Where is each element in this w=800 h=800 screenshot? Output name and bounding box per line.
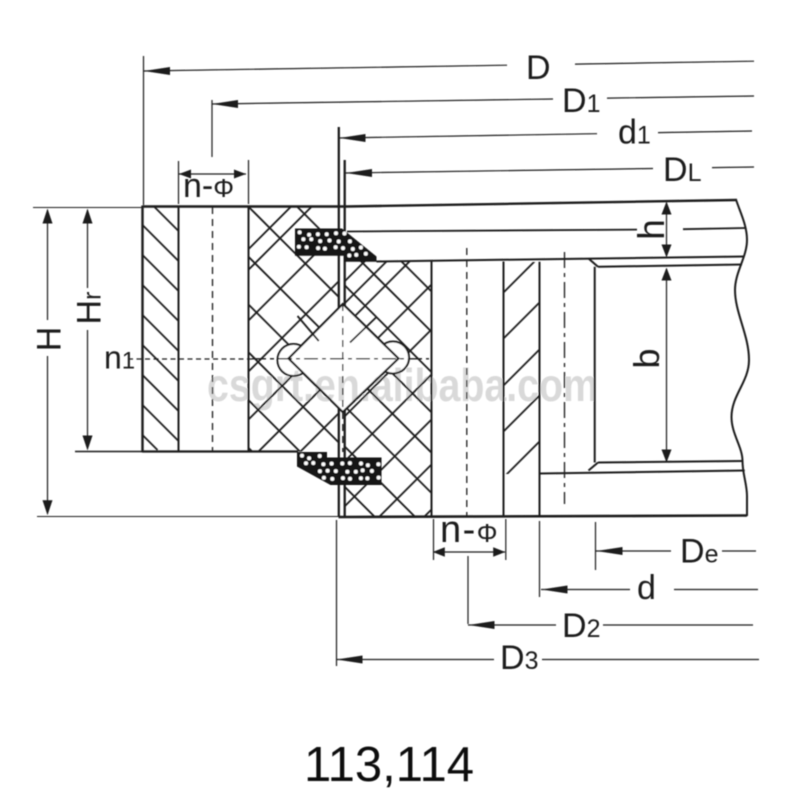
dimension De [596, 550, 671, 552]
b-block bottom edge [598, 461, 743, 463]
outer ring left edge [141, 206, 143, 453]
outer ring bottom edge [143, 450, 299, 452]
body top edge [143, 205, 347, 207]
upper seal (black wedge with dots) [295, 229, 377, 262]
dimension D [144, 65, 507, 71]
ring gap left line lower [338, 408, 340, 517]
bottom edge of bearing [339, 516, 748, 518]
d extension line [539, 521, 541, 597]
dimension Hr [87, 210, 89, 288]
dimension n-phi lower [433, 519, 435, 560]
D3 extension line [336, 520, 338, 666]
D extension line [143, 56, 145, 205]
lower seal (black wedge with dots) [297, 452, 382, 485]
dimension D2 [468, 624, 556, 626]
upper bolt hole left edge [178, 206, 180, 452]
De extension line [595, 522, 597, 570]
lower bolt hole centerline [466, 248, 468, 517]
svg-text:csgrt.en.alibaba.com: csgrt.en.alibaba.com [207, 359, 598, 411]
svg-text:n-Φ: n-Φ [183, 167, 234, 205]
b-block bottom chamfer [589, 463, 599, 471]
svg-text:113,114: 113,114 [304, 738, 474, 792]
svg-text:H: H [31, 327, 69, 352]
ring gap right line lower [344, 410, 346, 517]
lower bolt hole right edge [503, 262, 505, 518]
upper bolt hole centerline [212, 207, 214, 451]
horizontal centerline through roller (n1 line) [128, 358, 252, 360]
ring gap right line upper (DL extension) [344, 160, 346, 306]
D1 extension line [211, 100, 213, 157]
b-block top chamfer [589, 259, 599, 267]
dimension D1 [212, 99, 553, 104]
dimension d1 [339, 134, 597, 138]
plug hole right ear [377, 342, 409, 374]
svg-text:D: D [526, 49, 551, 87]
dimension n-phi upper [179, 173, 246, 175]
top plate bottom edge [377, 257, 744, 262]
dimension D3 [336, 659, 494, 661]
bottom plate top edge [540, 471, 745, 474]
plug hole left ear [278, 344, 310, 376]
lower bolt hole left edge [431, 261, 433, 517]
dimension d [541, 589, 630, 591]
Hr bottom extension line [75, 451, 143, 453]
inner ring web right edge / bottom plate left edge [539, 262, 541, 517]
roller axis tick upper-left [298, 316, 319, 341]
dimension b [666, 269, 668, 461]
D2 extension line [467, 556, 469, 624]
break line (wavy) [732, 200, 750, 517]
crossed roller (diamond) [289, 304, 399, 412]
grease hole centerline [564, 252, 566, 504]
svg-text:h: h [631, 219, 672, 240]
svg-text:b: b [626, 348, 667, 368]
b-block top edge [598, 265, 742, 267]
roller axis tick upper-right [350, 318, 376, 343]
upper n-phi extension lines [178, 161, 180, 204]
H bottom extension line [37, 516, 338, 518]
dimension h [666, 203, 668, 256]
hatching of outer ring left strip [143, 206, 179, 450]
dimension H [47, 210, 49, 320]
upper bolt hole right edge [248, 206, 250, 452]
vertical centerline through roller [342, 304, 344, 452]
ring gap left line upper (d1 extension) [338, 127, 340, 308]
b-block left edge [594, 267, 596, 463]
dimension DL [346, 169, 654, 174]
H/Hr top extension line [33, 207, 142, 209]
top plate middle line [347, 230, 637, 232]
svg-text:d: d [637, 569, 656, 607]
DL extension line part above plate [344, 160, 346, 206]
